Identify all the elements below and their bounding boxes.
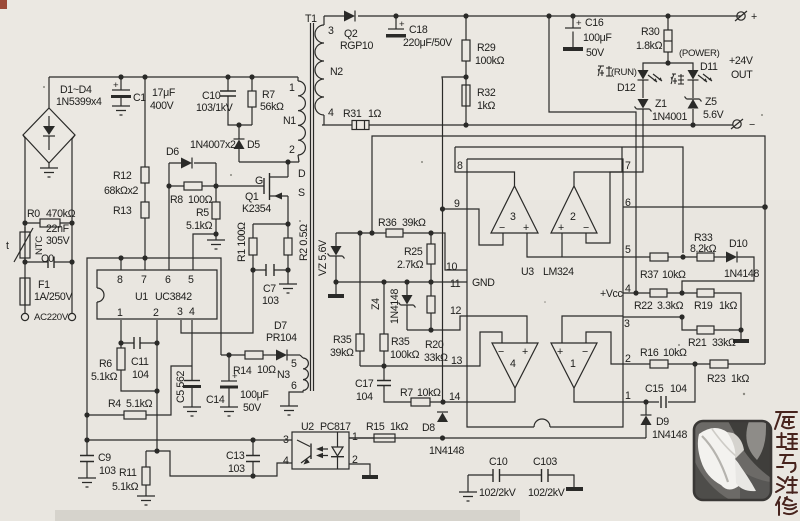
svg-text:400V: 400V: [150, 100, 175, 112]
capacitor C9 103: [78, 440, 116, 487]
svg-text:17μF: 17μF: [152, 87, 176, 99]
node label: RUN red char: [598, 66, 612, 76]
svg-text:R0: R0: [27, 208, 40, 220]
svg-text:R15: R15: [366, 421, 385, 433]
wire: R35 bottoms to pin 13: [360, 365, 467, 367]
svg-text:8: 8: [117, 274, 123, 286]
svg-text:C7: C7: [263, 283, 276, 295]
svg-text:3.3kΩ: 3.3kΩ: [657, 300, 684, 312]
terminal plus: [729, 11, 757, 81]
svg-text:3: 3: [624, 318, 630, 330]
svg-text:104: 104: [356, 391, 373, 403]
svg-text:R5: R5: [196, 207, 209, 219]
svg-text:U1: U1: [135, 291, 148, 303]
svg-text:N1: N1: [283, 115, 296, 127]
svg-text:VZ 5.6V: VZ 5.6V: [317, 239, 329, 276]
resistor R19 1k: [694, 289, 744, 333]
svg-text:R19: R19: [694, 300, 713, 312]
svg-text:AC220V: AC220V: [34, 312, 69, 323]
svg-text:+: +: [557, 346, 563, 358]
resistor R5 5.1k: [186, 186, 225, 249]
resistor R31 1R: [322, 108, 466, 130]
resistor R33 8.2k: [690, 232, 726, 261]
svg-text:7: 7: [141, 274, 147, 286]
svg-text:10: 10: [446, 261, 458, 273]
wire: pin 1 stub: [120, 320, 122, 343]
capacitor C10 102/2kV: [459, 456, 541, 501]
svg-text:RGP10: RGP10: [340, 40, 373, 52]
svg-text:1A/250V: 1A/250V: [34, 291, 73, 303]
resistor R0 470k: [22, 208, 75, 227]
capacitor C18 220uF/50V: [386, 13, 453, 49]
svg-text:1N4148: 1N4148: [389, 289, 401, 324]
svg-text:Q1: Q1: [245, 191, 259, 203]
svg-text:D10: D10: [729, 238, 748, 250]
wire: pin 5 riser to R5 ground: [193, 234, 216, 270]
svg-text:470kΩ: 470kΩ: [46, 208, 76, 220]
svg-text:4: 4: [283, 455, 289, 467]
svg-text:103: 103: [262, 295, 279, 307]
svg-text:8.2kΩ: 8.2kΩ: [690, 243, 717, 255]
char 维: [776, 477, 797, 493]
svg-text:C17: C17: [355, 378, 374, 390]
svg-text:D9: D9: [656, 416, 669, 428]
wire: FB lower rail to opto pin 4: [146, 451, 292, 476]
zener VZ 5.6V: [317, 233, 345, 298]
svg-text:F1: F1: [38, 279, 50, 291]
svg-text:10kΩ: 10kΩ: [662, 269, 686, 281]
capacitor C14 100uF/50V: [206, 352, 269, 416]
svg-text:R4: R4: [108, 398, 121, 410]
svg-text:OUT: OUT: [731, 69, 753, 81]
svg-text:50V: 50V: [586, 47, 605, 59]
svg-text:R6: R6: [99, 358, 112, 370]
svg-text:1N4148: 1N4148: [429, 445, 464, 457]
bridge rectifier D1~D4: [23, 84, 102, 177]
terminal minus: [731, 119, 755, 131]
capacitor C5 562: [175, 320, 201, 416]
svg-text:+Vcc: +Vcc: [600, 288, 623, 300]
op-amp U3 LM324 box: [446, 159, 631, 427]
svg-text:5: 5: [188, 274, 194, 286]
wire: VREF/VCC top bus: [87, 258, 221, 440]
svg-text:−: −: [499, 222, 505, 234]
svg-text:3: 3: [328, 25, 334, 37]
svg-text:5.1kΩ: 5.1kΩ: [91, 371, 118, 383]
svg-text:39kΩ: 39kΩ: [402, 217, 426, 229]
svg-text:R14: R14: [233, 365, 252, 377]
capacitor C17 104: [355, 366, 411, 403]
capacitor C15 104: [623, 364, 695, 408]
wire: VZ node to minus-sense rail: [372, 136, 765, 364]
svg-text:1: 1: [117, 307, 123, 319]
wire: R29/R32 tap to op-amp column: [442, 77, 466, 402]
svg-text:1N4148: 1N4148: [724, 268, 759, 280]
svg-text:D1~D4: D1~D4: [60, 84, 92, 96]
fuse F1: [20, 278, 73, 305]
svg-text:+: +: [399, 19, 405, 30]
wire: pin 8 stub: [120, 258, 122, 270]
transistor Q1 K2354 MOSFET: [216, 162, 306, 224]
resistor R25 2.7k: [397, 230, 435, 282]
resistor R2 0.5R: [279, 224, 310, 293]
svg-text:100μF: 100μF: [583, 32, 612, 44]
wire: D5 to N1 pin2 / Q1 drain: [239, 161, 299, 163]
svg-text:104: 104: [132, 369, 149, 381]
svg-text:4: 4: [189, 306, 195, 318]
svg-text:1: 1: [289, 82, 295, 94]
wire: +Vcc feed: [549, 16, 636, 293]
wire: AC right leg: [72, 135, 75, 313]
svg-text:5.6V: 5.6V: [703, 109, 725, 121]
capacitor C7 103: [250, 264, 288, 307]
op-amp 3: [455, 147, 623, 257]
svg-text:104: 104: [670, 383, 687, 395]
svg-text:100kΩ: 100kΩ: [390, 349, 420, 361]
capacitor C103 102/2kV: [528, 456, 583, 499]
resistor R7 56k: [248, 74, 284, 125]
svg-text:K2354: K2354: [242, 203, 271, 215]
svg-text:C18: C18: [409, 24, 428, 36]
svg-text:C9: C9: [98, 452, 111, 464]
wire: AC left leg: [23, 135, 25, 313]
svg-text:R35: R35: [333, 334, 352, 346]
svg-text:5.1kΩ: 5.1kΩ: [112, 481, 139, 493]
wire: pin 6 riser to gate node: [168, 186, 170, 270]
svg-text:11: 11: [450, 278, 461, 290]
svg-text:102/2kV: 102/2kV: [528, 487, 566, 499]
LED D11 (POWER): [668, 48, 720, 98]
svg-text:R7: R7: [262, 89, 275, 101]
resistor R21 33k: [623, 314, 749, 349]
svg-text:39kΩ: 39kΩ: [330, 347, 354, 359]
svg-text:5.1kΩ: 5.1kΩ: [186, 220, 213, 232]
svg-text:R23: R23: [707, 373, 726, 385]
resistor R23 1k: [707, 360, 765, 385]
wire: minus rail to terminal: [466, 124, 733, 126]
wire: GND bus pin 11: [336, 281, 467, 283]
wire: HV feed to R12: [144, 77, 146, 167]
svg-text:(POWER): (POWER): [679, 48, 720, 59]
resistor R1 100R: [236, 221, 291, 270]
char 理: [777, 433, 797, 449]
resistor R22 3.3k: [623, 289, 697, 312]
svg-text:5.1kΩ: 5.1kΩ: [126, 398, 153, 410]
text: magazine title 原理与维修 (calligraphy): [775, 412, 797, 515]
svg-text:1kΩ: 1kΩ: [390, 421, 408, 433]
photo: magazine corner image: [694, 421, 771, 500]
svg-text:2: 2: [289, 144, 295, 156]
svg-text:10Ω: 10Ω: [257, 364, 276, 376]
svg-text:C13: C13: [226, 450, 245, 462]
svg-text:R21: R21: [688, 337, 707, 349]
svg-text:1: 1: [625, 390, 631, 402]
resistor R12: [104, 167, 149, 197]
transformer T1 core: [305, 13, 317, 391]
svg-text:R8: R8: [170, 194, 183, 206]
svg-text:D11: D11: [700, 61, 718, 73]
svg-text:R7: R7: [400, 387, 413, 399]
diode D9 1N4148: [641, 402, 688, 441]
svg-text:33kΩ: 33kΩ: [424, 352, 448, 364]
svg-text:GND: GND: [472, 277, 495, 289]
svg-text:8: 8: [457, 160, 463, 172]
svg-text:102/2kV: 102/2kV: [479, 487, 517, 499]
resistor R4 5.1k: [84, 366, 192, 419]
svg-text:14: 14: [449, 391, 461, 403]
resistor R6 5.1k: [91, 343, 157, 391]
svg-text:1: 1: [352, 431, 358, 443]
svg-text:Q2: Q2: [344, 28, 358, 40]
resistor R7 10k: [400, 387, 467, 406]
char 与: [777, 455, 796, 472]
svg-text:PC817: PC817: [320, 421, 351, 433]
wire: pin 2 riser: [156, 320, 158, 451]
svg-text:R31: R31: [343, 108, 362, 120]
op-amp 4: [467, 316, 538, 402]
svg-text:68kΩx2: 68kΩx2: [104, 185, 139, 197]
resistor R29 100k: [462, 13, 505, 125]
svg-text:R32: R32: [477, 87, 496, 99]
svg-text:R25: R25: [404, 246, 423, 258]
svg-text:12: 12: [450, 305, 462, 317]
svg-text:t: t: [6, 240, 9, 252]
svg-text:U2: U2: [301, 421, 314, 433]
diode D6: [166, 146, 216, 186]
svg-text:LM324: LM324: [543, 266, 574, 278]
svg-text:7: 7: [625, 160, 631, 172]
svg-text:+: +: [113, 80, 119, 91]
capacitor C13 103: [226, 440, 260, 476]
svg-text:220μF/50V: 220μF/50V: [403, 37, 453, 49]
svg-text:1N4148: 1N4148: [652, 429, 687, 441]
svg-text:R16: R16: [640, 347, 659, 359]
svg-text:6: 6: [165, 274, 171, 286]
svg-text:−: −: [583, 222, 589, 234]
svg-text:3: 3: [510, 211, 516, 223]
svg-text:R30: R30: [641, 26, 660, 38]
resistor R20 33k: [424, 282, 448, 364]
svg-text:1kΩ: 1kΩ: [731, 373, 749, 385]
svg-text:9: 9: [454, 198, 460, 210]
svg-text:+: +: [576, 18, 582, 29]
svg-text:C15: C15: [645, 383, 664, 395]
wire: top HV rail: [49, 76, 298, 78]
wire: pin 6 to minus-sense column: [623, 206, 765, 208]
svg-text:2: 2: [153, 307, 159, 319]
svg-text:N2: N2: [330, 66, 343, 78]
thermistor NTC: [6, 227, 45, 262]
svg-text:13: 13: [451, 355, 463, 367]
AC220V terminals: [21, 312, 75, 323]
resistor R35 39k: [330, 233, 364, 366]
svg-text:Z5: Z5: [705, 96, 717, 108]
capacitor C0 22nF/305V: [22, 223, 74, 268]
svg-text:103: 103: [99, 465, 116, 477]
diode Q2 RGP10: [324, 11, 741, 53]
svg-text:C14: C14: [206, 394, 225, 406]
svg-text:Z1: Z1: [655, 98, 667, 110]
svg-text:C10: C10: [202, 90, 221, 102]
wire: bottom feedback rail: [349, 437, 646, 439]
svg-text:2.7kΩ: 2.7kΩ: [397, 259, 424, 271]
svg-text:R20: R20: [425, 339, 444, 351]
svg-text:−: −: [749, 119, 755, 131]
svg-text:50V: 50V: [243, 402, 262, 414]
svg-text:305V: 305V: [46, 235, 71, 247]
svg-text:D7: D7: [274, 320, 287, 332]
char 原: [775, 412, 797, 429]
resistor R35 100k: [380, 282, 420, 366]
winding N3: [277, 355, 308, 415]
wire: node to pin 10: [431, 233, 467, 270]
svg-text:22nF: 22nF: [46, 223, 70, 235]
svg-text:D6: D6: [166, 146, 179, 158]
resistor R8 100R: [166, 182, 218, 206]
capacitor C1 17uF/400V: [111, 74, 176, 115]
LED D12 (RUN): [611, 60, 671, 98]
wire: pin 9 input: [440, 206, 445, 211]
svg-text:D5: D5: [247, 139, 260, 151]
svg-text:C16: C16: [585, 17, 604, 29]
diode D8 1N4148: [422, 412, 464, 457]
svg-text:103/1kV: 103/1kV: [196, 102, 234, 114]
svg-text:R29: R29: [477, 42, 496, 54]
char 修: [776, 497, 797, 515]
capacitor C16 100uF/50V: [563, 13, 612, 59]
svg-text:1N4007x2: 1N4007x2: [190, 139, 236, 151]
svg-text:R1 100Ω: R1 100Ω: [236, 222, 248, 262]
svg-text:D12: D12: [617, 82, 636, 94]
svg-text:−: −: [582, 346, 588, 358]
svg-text:5: 5: [625, 244, 631, 256]
diode D5 1N4007: [190, 122, 260, 162]
svg-text:C1: C1: [133, 92, 146, 104]
svg-text:C11: C11: [131, 356, 149, 368]
wire: left low rail to opto pin 3: [87, 439, 292, 441]
resistor R16 10k: [623, 347, 710, 368]
svg-text:56kΩ: 56kΩ: [260, 101, 284, 113]
svg-text:6: 6: [291, 380, 297, 392]
wire: Z4/R20 to pin 12: [407, 316, 467, 330]
svg-text:S: S: [298, 187, 305, 199]
svg-text:3: 3: [177, 306, 183, 318]
svg-text:2: 2: [570, 211, 576, 223]
svg-text:100μF: 100μF: [240, 389, 269, 401]
svg-text:UC3842: UC3842: [155, 291, 192, 303]
capacitor C11 104: [121, 337, 157, 381]
resistor R36 39k: [336, 217, 431, 237]
diode D10 1N4148: [682, 238, 759, 293]
zener Z4 1N4148: [370, 282, 416, 330]
winding N2: [315, 16, 343, 125]
svg-text:100Ω: 100Ω: [188, 194, 213, 206]
resistor R13: [113, 183, 149, 270]
optocoupler U2 PC817: [283, 421, 358, 469]
svg-text:R12: R12: [113, 170, 132, 182]
resistor R30 1.8k: [636, 13, 672, 63]
svg-text:2: 2: [625, 353, 631, 365]
svg-text:1Ω: 1Ω: [368, 108, 382, 120]
svg-text:1.8kΩ: 1.8kΩ: [636, 40, 663, 52]
svg-text:(RUN): (RUN): [611, 67, 637, 78]
svg-text:G: G: [255, 175, 263, 187]
svg-text:C103: C103: [533, 456, 557, 468]
svg-text:4: 4: [328, 107, 334, 119]
resistor R32 1k: [462, 74, 496, 112]
svg-text:1N4001: 1N4001: [652, 111, 687, 123]
capacitor C10 103/1kV: [196, 74, 252, 125]
svg-text:R13: R13: [113, 205, 132, 217]
op-amp U1 UC3842 box: [97, 270, 217, 319]
svg-text:N3: N3: [277, 369, 290, 381]
svg-text:C10: C10: [489, 456, 508, 468]
svg-text:R35: R35: [391, 336, 410, 348]
svg-text:1kΩ: 1kΩ: [477, 100, 495, 112]
resistor R14 10R: [221, 351, 276, 377]
resistor R37 10k: [623, 253, 697, 281]
svg-text:1N5399x4: 1N5399x4: [56, 96, 102, 108]
svg-text:+24V: +24V: [729, 55, 754, 67]
svg-text:T1: T1: [305, 13, 317, 25]
node label: green char: [671, 74, 684, 84]
svg-text:+: +: [751, 11, 757, 23]
op-amp 1: [551, 316, 623, 402]
svg-text:R2 0.5Ω: R2 0.5Ω: [298, 224, 310, 261]
svg-text:PR104: PR104: [266, 332, 297, 344]
svg-text:33kΩ: 33kΩ: [712, 337, 736, 349]
svg-text:1kΩ: 1kΩ: [719, 300, 737, 312]
wire: op outputs bus to R33 node: [455, 147, 683, 253]
svg-text:10kΩ: 10kΩ: [417, 387, 441, 399]
svg-text:4: 4: [510, 358, 516, 370]
svg-text:D8: D8: [422, 422, 435, 434]
svg-text:R22: R22: [634, 300, 653, 312]
op-amp 2: [551, 147, 622, 257]
svg-text:Z4: Z4: [370, 298, 382, 310]
svg-text:+: +: [522, 346, 528, 358]
wire: opto pin 1: [349, 437, 374, 439]
svg-text:C5 562: C5 562: [175, 370, 187, 403]
svg-text:C0: C0: [41, 253, 54, 265]
svg-text:U3: U3: [521, 266, 534, 278]
svg-text:100kΩ: 100kΩ: [475, 55, 505, 67]
zener Z1 1N4001: [586, 98, 687, 243]
svg-text:R11: R11: [119, 467, 137, 479]
svg-text:−: −: [498, 346, 504, 358]
zener Z5 5.6V: [685, 96, 725, 128]
wire: bridge top riser: [48, 77, 50, 108]
svg-text:+: +: [558, 222, 564, 234]
diode D7 PR104: [266, 320, 300, 361]
svg-text:R36: R36: [378, 217, 397, 229]
wire: opto pin 2 ground: [349, 464, 370, 475]
svg-text:10kΩ: 10kΩ: [663, 347, 687, 359]
svg-text:D: D: [298, 168, 306, 180]
svg-text:R37: R37: [640, 269, 659, 281]
resistor R15 1k: [366, 421, 408, 442]
svg-text:+: +: [523, 222, 529, 234]
svg-text:5: 5: [291, 358, 297, 370]
resistor R11 5.1k: [112, 451, 155, 505]
wire: pin 3 to current sense: [181, 270, 253, 333]
winding N1: [283, 77, 305, 162]
svg-text:103: 103: [228, 463, 245, 475]
svg-text:1: 1: [570, 358, 576, 370]
